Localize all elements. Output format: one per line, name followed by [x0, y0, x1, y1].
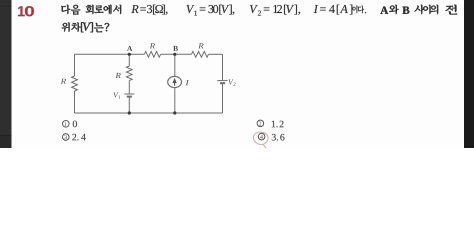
label node B — [173, 46, 178, 51]
current source arrow stem — [174, 83, 176, 86]
wire bottom — [75, 112, 223, 114]
wire current source to bottom — [174, 88, 176, 113]
math: I = 4[A]이다. — [314, 5, 366, 15]
text: A와 B 사이의 전 — [380, 5, 457, 15]
wire top-left corner to node A / resistor — [75, 53, 145, 55]
resistor R left branch — [72, 76, 78, 91]
right dark strip — [464, 0, 474, 148]
wire battery V1 to bottom — [128, 97, 130, 113]
current source I circle — [168, 76, 182, 87]
wire left side upper — [74, 54, 76, 76]
wire right side lower — [222, 84, 224, 113]
option 1: 0 — [63, 121, 70, 128]
battery V2 long plate — [217, 80, 227, 82]
resistor R between A and B — [144, 51, 160, 57]
math: V2 = 12[V], — [250, 5, 300, 16]
label V2 — [229, 80, 236, 86]
label node A — [127, 46, 132, 51]
battery V2 short plate — [220, 82, 225, 84]
option 3: 2.4 — [63, 134, 70, 141]
junction dot node A — [128, 53, 131, 56]
current source arrow head — [173, 78, 177, 83]
label R of right resistor — [198, 43, 203, 48]
option 4: 3.6 — [258, 133, 265, 140]
label R of A-B resistor — [150, 43, 155, 48]
wire right side upper — [222, 54, 224, 80]
junction dot node B — [173, 53, 176, 56]
label R of middle resistor — [115, 73, 120, 78]
math: V1 = 30[V], — [187, 5, 235, 16]
label I — [185, 80, 189, 85]
left dark sidebar — [0, 0, 12, 148]
wire node B down to current source — [174, 54, 176, 76]
battery V1 long plate — [124, 93, 134, 95]
wire between resistors — [161, 53, 192, 55]
label R of left resistor — [61, 79, 66, 84]
resistor R right of B — [192, 51, 209, 57]
wire left side lower — [74, 91, 76, 113]
battery V1 short plate — [127, 96, 132, 98]
question number 10 — [18, 6, 34, 16]
red pen mark circling option 4 — [253, 132, 268, 148]
wire node A down to resistor — [128, 54, 130, 66]
resistor R middle branch — [126, 66, 132, 81]
math: R = 3[Ω], — [131, 5, 167, 15]
junction dot bottom of V1 branch — [128, 111, 131, 114]
wire to top-right corner — [209, 53, 223, 55]
option 2: 1.2 — [257, 120, 264, 127]
wire resistor to battery V1 — [128, 81, 130, 94]
label V1 — [114, 93, 121, 99]
junction dot bottom of I branch — [173, 111, 176, 114]
text: 위차[V]는? — [62, 22, 109, 32]
page background — [0, 0, 474, 148]
text: 다음 회로에서 — [61, 5, 121, 15]
